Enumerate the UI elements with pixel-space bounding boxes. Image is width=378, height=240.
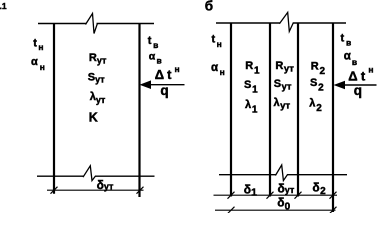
svg-text:λ2: λ2 xyxy=(309,98,322,115)
svg-text:δ2: δ2 xyxy=(312,180,326,197)
svg-text:αв: αв xyxy=(149,50,162,65)
svg-text:tв: tв xyxy=(341,33,352,48)
svg-text:.1: .1 xyxy=(0,1,7,11)
svg-text:δут: δут xyxy=(97,178,114,192)
svg-text:q: q xyxy=(354,83,362,98)
svg-text:tн: tн xyxy=(212,33,222,49)
svg-text:λут: λут xyxy=(274,97,291,112)
svg-text:αн: αн xyxy=(31,56,45,72)
svg-text:αн: αн xyxy=(211,62,225,77)
svg-text:K: K xyxy=(89,111,98,125)
svg-text:Rут: Rут xyxy=(89,52,107,66)
svg-text:Δtн: Δtн xyxy=(155,64,180,82)
svg-text:δут: δут xyxy=(278,182,295,196)
svg-text:αв: αв xyxy=(344,51,357,67)
svg-text:R1: R1 xyxy=(245,60,260,77)
svg-text:Sут: Sут xyxy=(274,78,292,93)
svg-text:λут: λут xyxy=(90,91,106,105)
svg-text:Δtн: Δtн xyxy=(348,65,373,84)
svg-text:Sут: Sут xyxy=(88,71,105,84)
svg-text:Rут: Rут xyxy=(275,60,294,75)
svg-text:λ1: λ1 xyxy=(245,99,258,116)
svg-text:R2: R2 xyxy=(311,60,326,77)
svg-text:tв: tв xyxy=(148,35,159,50)
svg-text:δ1: δ1 xyxy=(244,182,257,198)
svg-text:S1: S1 xyxy=(244,79,258,96)
svg-text:б: б xyxy=(205,0,213,14)
svg-text:q: q xyxy=(160,83,168,98)
svg-text:tн: tн xyxy=(33,37,43,52)
svg-text:S2: S2 xyxy=(310,77,324,94)
